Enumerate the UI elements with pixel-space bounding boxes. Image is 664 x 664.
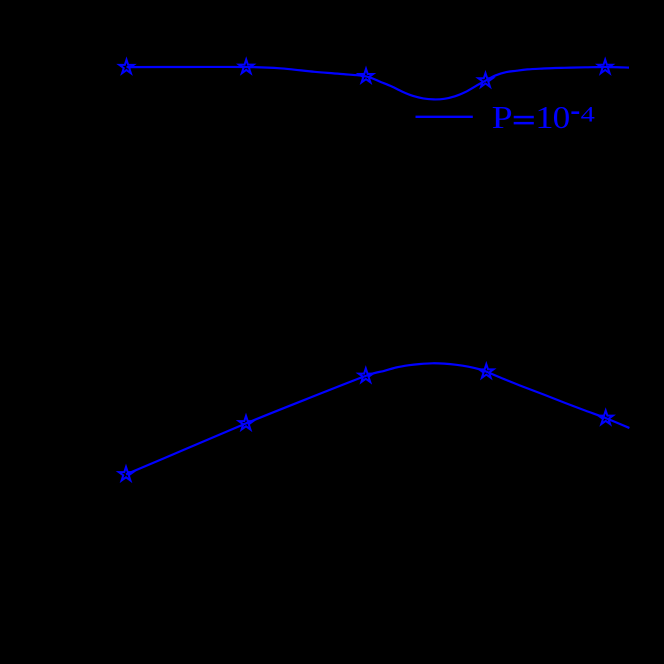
svg-text:4: 4: [581, 102, 595, 127]
legend label superscript minus: [571, 111, 579, 114]
svg-text:1: 1: [535, 100, 553, 135]
marker star lower 3: [359, 368, 373, 382]
marker star upper 4: [478, 73, 492, 87]
svg-text:P: P: [492, 100, 513, 136]
marker star upper 5: [598, 60, 612, 74]
marker star lower 2: [239, 416, 253, 430]
marker star upper 1: [119, 60, 133, 74]
legend label equals sign bar 1: [514, 116, 534, 119]
marker star upper 3: [359, 69, 373, 83]
legend sample line: [416, 116, 473, 118]
marker star lower 5: [599, 410, 613, 424]
curve P=1e-4 upper: [127, 67, 630, 100]
svg-text:0: 0: [553, 101, 571, 136]
marker star lower 1: [119, 467, 133, 481]
legend label equals sign bar 2: [514, 122, 534, 125]
curve P=1e-4 lower: [126, 363, 629, 474]
marker star upper 2: [239, 59, 253, 73]
marker star lower 4: [479, 364, 493, 378]
